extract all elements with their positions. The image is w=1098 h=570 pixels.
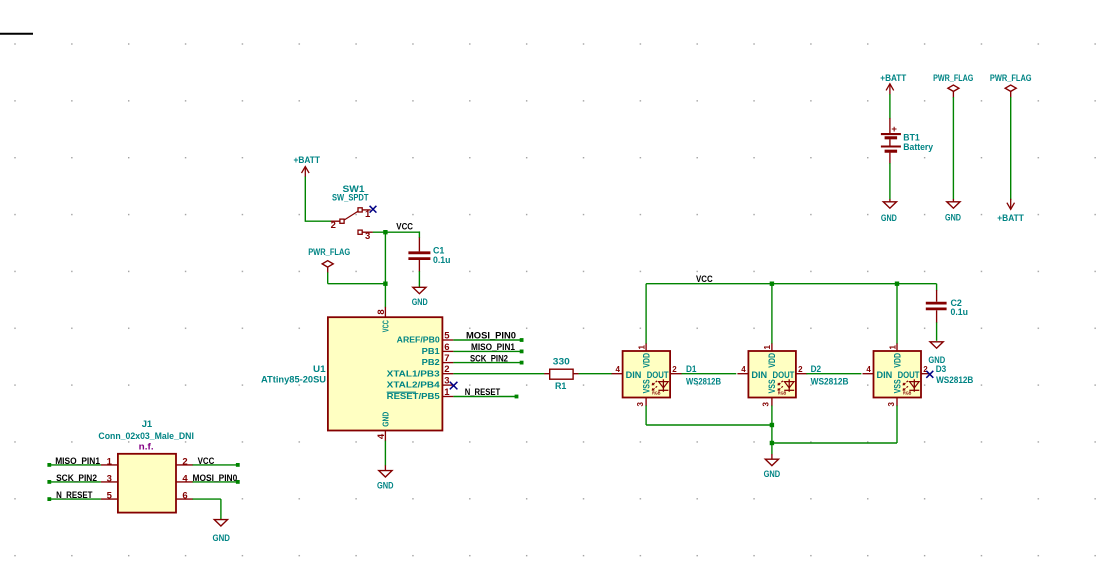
wire end square N_RESET (J1) [47, 497, 51, 501]
wire end square VCC (J1) [236, 463, 240, 467]
wire SW1 pin 3 to C1 [373, 231, 420, 233]
LED D2 (WS2812B) body [748, 351, 796, 398]
svg-text:3: 3 [762, 402, 771, 407]
wire end square N_RESET [515, 395, 519, 399]
svg-text:VCC: VCC [198, 456, 215, 467]
svg-text:+BATT: +BATT [997, 213, 1024, 224]
wire PWR_FLAG to +BATT (right) [1010, 97, 1012, 200]
svg-text:Conn_02x03_Male_DNI: Conn_02x03_Male_DNI [98, 431, 193, 442]
wire U1 GND pin down [384, 441, 386, 466]
svg-text:+BATT: +BATT [880, 73, 906, 84]
svg-text:DOUT: DOUT [773, 370, 795, 381]
svg-text:MOSI_PIN0: MOSI_PIN0 [466, 331, 516, 342]
J1 pin 4 stub [176, 481, 193, 483]
U1 pin 2 stub [442, 373, 453, 375]
svg-text:3: 3 [444, 376, 449, 387]
svg-text:WS2812B: WS2812B [811, 376, 849, 387]
capacitor C1 [418, 238, 420, 252]
wire C1 top drop [418, 231, 420, 238]
svg-text:DIN: DIN [626, 370, 642, 381]
svg-text:GND: GND [928, 355, 945, 366]
J1 pin 5 stub [101, 498, 118, 500]
svg-text:VCC: VCC [382, 320, 391, 332]
wire BT1 to GND [889, 163, 891, 199]
D3 pin 3 stub (VSS) [896, 398, 898, 407]
svg-text:2: 2 [331, 220, 336, 231]
svg-text:6: 6 [182, 491, 187, 502]
U1 pin 4 stub (GND bottom) [384, 431, 386, 442]
wire VCC (J1 pin 2) [193, 464, 237, 466]
junction VCC at D3 [895, 282, 899, 286]
svg-text:PWR_FLAG: PWR_FLAG [308, 247, 350, 258]
wire D1 DOUT to D2 DIN [682, 373, 737, 375]
svg-text:RGB: RGB [652, 391, 661, 396]
svg-text:SCK_PIN2: SCK_PIN2 [470, 353, 508, 364]
D1 pin 2 stub (DOUT) [670, 373, 682, 375]
power symbol +BATT (right column, pointing down) [1007, 203, 1015, 210]
wire end square MOSI_PIN0 [520, 338, 524, 342]
svg-text:XTAL2/PB4: XTAL2/PB4 [387, 381, 441, 390]
svg-text:J1: J1 [142, 419, 153, 430]
wire MISO_PIN1 (J1) [51, 464, 101, 466]
svg-text:DIN: DIN [877, 370, 893, 381]
svg-text:R1: R1 [555, 381, 567, 392]
wire PWR_FLAG to GND (middle) [952, 97, 954, 199]
svg-text:n.f.: n.f. [139, 441, 154, 452]
IC U1 body [328, 317, 443, 430]
sheet border edge (top-left) [0, 33, 33, 35]
svg-text:3: 3 [887, 402, 896, 407]
svg-text:VSS: VSS [892, 379, 903, 393]
wire D1 VDD drop [645, 284, 647, 344]
svg-text:2: 2 [798, 365, 803, 374]
svg-text:PB2: PB2 [422, 358, 441, 367]
capacitor C2 [936, 290, 938, 302]
D2 pin 1 stub (VDD) [771, 343, 773, 351]
svg-text:AREF/PB0: AREF/PB0 [397, 336, 441, 345]
J1 pin 6 stub [176, 498, 193, 500]
svg-text:GND: GND [945, 213, 961, 224]
wire VSS rail to GND [771, 443, 773, 454]
junction at VCC node [383, 230, 387, 234]
svg-text:4: 4 [741, 365, 746, 374]
LED D3 (WS2812B) body [874, 351, 922, 398]
svg-text:DOUT: DOUT [647, 370, 669, 381]
connector J1 body [118, 454, 176, 513]
J1 pin 3 stub [101, 481, 118, 483]
svg-text:330: 330 [553, 356, 570, 367]
svg-text:2: 2 [182, 456, 187, 467]
D3 pin 2 stub (DOUT) [921, 373, 929, 375]
wire D1 VSS drop [645, 406, 647, 426]
D2 pin 2 stub (DOUT) [796, 373, 808, 375]
ground symbol under LED rail [765, 459, 778, 465]
wire VCC down to U1 pin 8 [384, 232, 386, 307]
U1 pin 7 stub [442, 362, 453, 364]
no-connect X on D3 DOUT [926, 371, 933, 378]
U1 pin 6 stub [442, 350, 453, 352]
svg-text:VDD: VDD [641, 353, 652, 368]
svg-text:0.1u: 0.1u [951, 307, 969, 318]
wire end square MISO_PIN1 (J1) [47, 463, 51, 467]
wire VSS rail D1-D2 [646, 424, 772, 426]
wire MOSI_PIN0 [453, 339, 520, 341]
svg-text:RGB: RGB [903, 391, 912, 396]
wire MOSI_PIN0 (J1 pin 4) [193, 481, 237, 483]
U1 pin 1 stub [442, 396, 453, 398]
wire SCK_PIN2 [453, 362, 520, 364]
svg-text:GND: GND [412, 297, 428, 308]
svg-text:1: 1 [888, 345, 897, 350]
svg-text:4: 4 [616, 365, 621, 374]
wire D3 VSS drop [896, 406, 898, 444]
svg-text:Battery: Battery [903, 142, 933, 153]
svg-text:3: 3 [107, 473, 112, 484]
ground symbol under C1 [413, 287, 426, 293]
wire D3 VDD drop [896, 284, 898, 344]
svg-text:GND: GND [213, 533, 231, 544]
svg-text:PWR_FLAG: PWR_FLAG [933, 73, 973, 84]
wire C1 to GND [418, 271, 420, 287]
LED D1 (WS2812B) body [623, 351, 671, 398]
svg-text:1: 1 [365, 209, 371, 220]
D3 pin 4 stub (DIN) [863, 373, 874, 375]
svg-text:N_RESET: N_RESET [56, 490, 93, 501]
svg-text:2: 2 [444, 364, 449, 375]
svg-text:0.1u: 0.1u [433, 255, 451, 266]
no-connect X on U1 pin 3 (XTAL2/PB4) [450, 382, 458, 390]
wire VSS rail D2-D3 [772, 442, 897, 444]
wire C2 to GND [936, 322, 938, 340]
wire end square MOSI_PIN0 (J1) [236, 480, 240, 484]
wire PWR_FLAG down [327, 272, 329, 283]
wire VCC rail to C2 [936, 284, 938, 291]
wire end square SCK_PIN2 (J1) [47, 480, 51, 484]
wire MISO_PIN1 [453, 350, 520, 352]
junction VSS at D2 (upper) [770, 423, 774, 427]
svg-text:4: 4 [182, 473, 188, 484]
ground symbol under U1 [379, 471, 392, 477]
svg-text:1: 1 [444, 387, 450, 398]
svg-text:GND: GND [881, 213, 897, 224]
svg-text:MISO_PIN1: MISO_PIN1 [55, 456, 100, 467]
U1 pin 5 stub [442, 339, 453, 341]
svg-text:4: 4 [376, 433, 387, 439]
svg-text:RESET/PB5: RESET/PB5 [387, 392, 441, 401]
svg-text:1: 1 [763, 345, 772, 350]
U1 pin 8 stub (VCC top) [384, 307, 386, 317]
ground symbol under C2 [930, 342, 943, 348]
svg-text:GND: GND [764, 469, 781, 480]
svg-text:WS2812B: WS2812B [686, 376, 721, 387]
U1 pin 3 stub [442, 384, 453, 386]
D2 LED glyph [788, 379, 790, 392]
svg-text:8: 8 [376, 309, 387, 314]
svg-text:VSS: VSS [767, 379, 778, 393]
svg-text:ATtiny85-20SU: ATtiny85-20SU [261, 375, 326, 386]
svg-text:PWR_FLAG: PWR_FLAG [990, 73, 1032, 84]
wire R1 to D1 DIN [579, 373, 612, 375]
J1 pin 2 stub [176, 464, 193, 466]
wire D2 VDD drop [771, 284, 773, 344]
svg-text:+BATT: +BATT [294, 155, 321, 166]
svg-text:MOSI_PIN0: MOSI_PIN0 [193, 473, 238, 484]
svg-text:3: 3 [636, 402, 645, 407]
ground symbol under BT1 [883, 202, 896, 208]
svg-text:N_RESET: N_RESET [465, 387, 501, 398]
svg-text:VSS: VSS [641, 379, 652, 393]
junction VSS at D2 (lower) [770, 441, 774, 445]
no-connect X on SW1 pin 1 [370, 206, 377, 213]
svg-text:MISO_PIN1: MISO_PIN1 [471, 342, 516, 353]
wire +BATT to BT1 [889, 94, 891, 119]
svg-text:2: 2 [672, 365, 677, 374]
wire D2 DOUT to D3 DIN [806, 373, 861, 375]
resistor R1 [544, 373, 549, 375]
D1 pin 3 stub (VSS) [645, 398, 647, 407]
svg-text:U1: U1 [313, 364, 326, 375]
wire D2 VSS drop [771, 406, 773, 444]
svg-text:4: 4 [866, 365, 871, 374]
svg-text:DIN: DIN [751, 370, 767, 381]
svg-text:RGB: RGB [778, 391, 787, 396]
ground symbol under middle PWR_FLAG [947, 202, 960, 208]
junction on VCC vertical [383, 282, 387, 286]
wire end square SCK_PIN2 [520, 361, 524, 365]
D2 pin 4 stub (DIN) [737, 373, 748, 375]
D3 pin 1 stub (VDD) [896, 343, 898, 351]
wire +BATT vertical [304, 177, 306, 222]
wire VCC rail over LEDs [646, 283, 937, 285]
svg-text:3: 3 [365, 231, 370, 242]
svg-text:5: 5 [107, 491, 113, 502]
svg-text:XTAL1/PB3: XTAL1/PB3 [387, 369, 441, 378]
svg-text:VDD: VDD [892, 353, 903, 368]
D1 pin 1 stub (VDD) [645, 343, 647, 351]
svg-text:VDD: VDD [767, 353, 778, 368]
svg-text:SCK_PIN2: SCK_PIN2 [56, 473, 97, 484]
svg-text:1: 1 [107, 456, 113, 467]
wire J1 pin 6 to GND (vertical) [220, 499, 222, 519]
svg-text:6: 6 [444, 342, 449, 353]
svg-text:1: 1 [637, 345, 646, 350]
D2 pin 3 stub (VSS) [771, 398, 773, 407]
D1 LED glyph [662, 379, 664, 392]
wire J1 pin 6 to GND (horizontal) [193, 498, 221, 500]
svg-text:GND: GND [377, 481, 394, 492]
svg-text:DOUT: DOUT [898, 370, 920, 381]
svg-text:PB1: PB1 [422, 347, 441, 356]
ground symbol under J1 [214, 520, 227, 526]
wire U1 XTAL1/PB3 to R1 [453, 373, 544, 375]
J1 pin 1 stub [101, 464, 118, 466]
D1 pin 4 stub (DIN) [612, 373, 623, 375]
svg-text:WS2812B: WS2812B [936, 375, 973, 386]
junction VCC at D2 [770, 282, 774, 286]
svg-text:GND: GND [382, 412, 391, 427]
svg-text:5: 5 [444, 330, 450, 341]
wire N_RESET (J1) [51, 498, 101, 500]
wire N_RESET [453, 396, 515, 398]
battery BT1 [889, 118, 891, 133]
wire +BATT to SW1 pin 2 [305, 220, 331, 222]
wire PWR_FLAG to VCC net [328, 283, 386, 285]
wire end square MISO_PIN1 [520, 350, 524, 354]
svg-text:VCC: VCC [396, 222, 413, 233]
svg-text:SW_SPDT: SW_SPDT [332, 193, 369, 204]
svg-text:7: 7 [444, 353, 449, 364]
wire SCK_PIN2 (J1) [51, 481, 101, 483]
D3 LED glyph [913, 379, 915, 392]
